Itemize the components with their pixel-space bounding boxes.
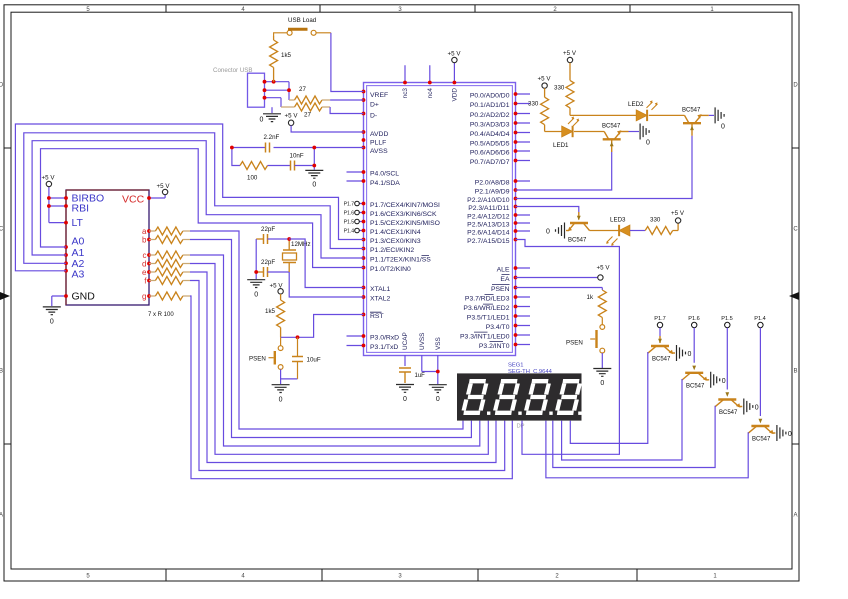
svg-text:XTAL1: XTAL1 xyxy=(370,286,390,293)
svg-text:P3.1/TxD: P3.1/TxD xyxy=(370,344,398,351)
svg-text:+5 V: +5 V xyxy=(42,175,56,182)
svg-text:2.2nF: 2.2nF xyxy=(264,134,280,141)
wire 27a to D+ xyxy=(330,99,363,101)
svg-text:P3.5/T1/LED1: P3.5/T1/LED1 xyxy=(467,314,510,321)
LED1 xyxy=(545,131,562,133)
svg-text:VREF: VREF xyxy=(370,92,388,99)
svg-text:AVDD: AVDD xyxy=(370,131,388,138)
svg-text:VSS: VSS xyxy=(435,337,442,350)
ground USB xyxy=(263,114,281,122)
svg-text:P4.1/SDA: P4.1/SDA xyxy=(370,180,400,187)
wire EA to +5V xyxy=(516,277,598,279)
transistor Q1 BC547 xyxy=(574,131,604,133)
svg-text:BC547: BC547 xyxy=(719,410,738,416)
base wire to P2.2 xyxy=(516,136,693,199)
svg-text:UVSS: UVSS xyxy=(419,333,426,350)
svg-text:P0.2/AD2/D2: P0.2/AD2/D2 xyxy=(470,112,510,119)
svg-text:100: 100 xyxy=(247,175,258,182)
wire 27b to D- xyxy=(330,107,363,114)
svg-text:P0.6/AD6/D6: P0.6/AD6/D6 xyxy=(470,149,510,156)
svg-text:P3.6/WR/LED2: P3.6/WR/LED2 xyxy=(463,305,509,312)
svg-text:P1.1/T2EX/KIN1/SS: P1.1/T2EX/KIN1/SS xyxy=(370,256,431,263)
svg-text:+5 V: +5 V xyxy=(448,51,462,58)
svg-text:b: b xyxy=(142,236,147,245)
left vertical to ground xyxy=(255,239,257,279)
decoder pin dots xyxy=(47,196,151,298)
svg-text:D+: D+ xyxy=(370,101,379,108)
base wire from P2.3 xyxy=(516,207,579,213)
svg-text:D-: D- xyxy=(370,112,377,119)
svg-text:P3.0/RxD: P3.0/RxD xyxy=(370,334,399,341)
resistor 330 R5 xyxy=(544,88,546,131)
ground decoder xyxy=(43,307,61,315)
mcu pin red dots right xyxy=(436,92,517,373)
mcu right pin stubs (unconnected) xyxy=(516,94,531,345)
wire A2 route xyxy=(24,133,364,263)
svg-text:P1.4/CEX1/KIN4: P1.4/CEX1/KIN4 xyxy=(370,229,421,236)
wire P2.7 to display DP pin xyxy=(516,240,620,455)
+5V RST xyxy=(278,289,283,294)
wire seg a xyxy=(190,231,463,429)
wire AVSS row xyxy=(232,147,364,149)
svg-text:0: 0 xyxy=(279,397,283,404)
display digit 4 xyxy=(557,381,580,413)
svg-text:P2.4/A12/D12: P2.4/A12/D12 xyxy=(467,213,510,220)
svg-text:27: 27 xyxy=(299,86,306,93)
svg-text:PSEN: PSEN xyxy=(491,286,510,293)
svg-text:BC547: BC547 xyxy=(682,108,701,114)
svg-text:P1.7: P1.7 xyxy=(344,202,355,208)
svg-text:BC547: BC547 xyxy=(568,238,587,244)
svg-text:LED3: LED3 xyxy=(610,217,626,224)
svg-text:P1.3/CEX0/KIN3: P1.3/CEX0/KIN3 xyxy=(370,238,421,245)
svg-text:PSEN: PSEN xyxy=(566,340,583,347)
svg-text:P1.6: P1.6 xyxy=(688,316,700,322)
svg-text:27: 27 xyxy=(304,112,311,119)
capacitor 22pF C5 top xyxy=(256,238,263,240)
base wires from terminals xyxy=(660,328,760,416)
1uF capacitor on UCAP xyxy=(399,368,411,383)
capacitor 2.2nF xyxy=(266,143,270,153)
svg-text:P2.0/A8/D8: P2.0/A8/D8 xyxy=(475,179,510,186)
svg-text:10nF: 10nF xyxy=(290,153,304,160)
wire node B to XTAL2 xyxy=(289,272,363,297)
rotated ground (opens left) xyxy=(556,223,565,239)
wire A3 route xyxy=(15,124,363,271)
wire seg c xyxy=(190,255,480,446)
svg-text:P0.7/AD7/D7: P0.7/AD7/D7 xyxy=(470,159,510,166)
svg-text:P1.2/ECI/KIN2: P1.2/ECI/KIN2 xyxy=(370,247,414,254)
svg-text:0: 0 xyxy=(646,140,650,147)
ground Q5 emitter xyxy=(711,372,720,388)
decoder labels xyxy=(72,193,105,281)
wire Q4 collector to display xyxy=(570,352,648,443)
svg-text:LED1: LED1 xyxy=(553,142,569,149)
svg-text:UCAP: UCAP xyxy=(402,332,409,350)
svg-text:+5 V: +5 V xyxy=(270,283,284,290)
wire A1 route xyxy=(32,141,363,258)
display decimal points xyxy=(487,412,582,415)
VCC wire to +5V xyxy=(149,195,165,198)
transistor Q2 BC547 xyxy=(649,114,685,116)
emitter to ground (rotated) xyxy=(629,131,640,133)
svg-text:P0.0/AD0/D0: P0.0/AD0/D0 xyxy=(470,92,510,99)
svg-text:330: 330 xyxy=(554,85,565,92)
1k5 pullup resistor xyxy=(273,36,275,82)
svg-text:VDD: VDD xyxy=(451,88,458,102)
svg-text:0: 0 xyxy=(254,292,258,299)
base wire to P2.1 xyxy=(516,152,612,190)
svg-text:P1.0/T2/KIN0: P1.0/T2/KIN0 xyxy=(370,266,411,273)
transistor Q4 BC547 (P1.7) xyxy=(648,336,675,353)
svg-text:P3.2/INT0: P3.2/INT0 xyxy=(479,343,510,350)
svg-text:0: 0 xyxy=(721,124,725,131)
svg-text:SEG1: SEG1 xyxy=(508,363,523,369)
svg-text:+5 V: +5 V xyxy=(671,210,685,217)
svg-text:ALE: ALE xyxy=(497,266,510,273)
wire seg b xyxy=(190,240,471,438)
+5V LED2 xyxy=(567,57,572,62)
7x 100R resistor network a-g xyxy=(149,227,190,300)
pushbutton PSEN (left) xyxy=(280,337,282,345)
ground Q6 emitter xyxy=(744,399,753,415)
left junction vertical xyxy=(232,148,240,166)
GND pin wire xyxy=(52,296,66,306)
svg-text:D: D xyxy=(793,83,798,89)
+5V LED3 xyxy=(675,218,680,223)
MCU IC body (double purple border) xyxy=(364,83,516,356)
svg-text:0: 0 xyxy=(546,229,550,236)
svg-text:1k5: 1k5 xyxy=(281,52,292,59)
svg-text:PLLF: PLLF xyxy=(370,140,386,147)
svg-text:P1.7: P1.7 xyxy=(654,316,666,322)
transistor Q5 BC547 (P1.6) xyxy=(682,373,709,380)
svg-text:1k5: 1k5 xyxy=(265,308,276,315)
svg-text:RST: RST xyxy=(370,313,384,320)
pushbutton PSEN (right) xyxy=(600,325,605,330)
ground PLL filter xyxy=(305,170,323,178)
resistor 1k xyxy=(598,290,606,318)
27 ohm resistor R4 xyxy=(295,103,323,111)
wire seg e xyxy=(190,272,496,463)
svg-text:+5 V: +5 V xyxy=(563,50,577,57)
svg-text:USB Load: USB Load xyxy=(288,17,317,24)
svg-text:VCC: VCC xyxy=(122,194,145,206)
svg-text:nc3: nc3 xyxy=(402,88,409,99)
svg-text:0: 0 xyxy=(403,396,407,403)
svg-text:P0.5/AD5/D5: P0.5/AD5/D5 xyxy=(470,140,510,147)
wire seg g xyxy=(190,296,512,479)
svg-text:B: B xyxy=(0,369,3,375)
svg-text:12MHz: 12MHz xyxy=(291,241,311,248)
decoder left pin wires xyxy=(49,187,66,306)
svg-text:P0.3/AD3/D3: P0.3/AD3/D3 xyxy=(470,121,510,128)
svg-text:330: 330 xyxy=(528,101,539,108)
svg-text:P4.0/SCL: P4.0/SCL xyxy=(370,171,399,178)
svg-text:1uF: 1uF xyxy=(415,373,426,379)
svg-text:P3.3/INT1/LED0: P3.3/INT1/LED0 xyxy=(460,333,510,340)
capacitor 10nF xyxy=(291,161,295,171)
svg-text:0: 0 xyxy=(312,182,316,189)
svg-text:0: 0 xyxy=(722,378,726,385)
resistor 100 xyxy=(240,162,268,170)
frame centre arrows xyxy=(0,292,10,300)
svg-text:P1.6: P1.6 xyxy=(344,211,355,217)
svg-text:22pF: 22pF xyxy=(261,226,275,233)
svg-text:P1.4: P1.4 xyxy=(344,229,355,235)
svg-text:+5 V: +5 V xyxy=(157,183,171,190)
+5V to AVDD xyxy=(288,120,293,125)
svg-text:C: C xyxy=(793,227,798,233)
overlines for RST and SS xyxy=(370,256,429,313)
ground Q7 emitter xyxy=(777,425,786,441)
svg-text:P2.7/A15/D15: P2.7/A15/D15 xyxy=(467,238,510,245)
svg-text:P1.7/CEX4/KIN7/MOSI: P1.7/CEX4/KIN7/MOSI xyxy=(370,202,440,209)
svg-text:GND: GND xyxy=(72,291,96,303)
mcu pin red dots left xyxy=(362,81,457,348)
display SEG1 bezel xyxy=(457,373,582,420)
27 ohm resistor R3 xyxy=(295,96,323,104)
svg-text:0: 0 xyxy=(688,351,692,358)
LED3 (points left) xyxy=(590,230,620,232)
wire A0 route xyxy=(41,149,364,268)
svg-text:A: A xyxy=(0,513,3,519)
svg-text:A: A xyxy=(793,513,797,519)
transistor Q7 BC547 (P1.4) xyxy=(748,426,775,433)
mcu left pin stubs xyxy=(347,172,364,346)
P1.7-P1.4 terminal circles at mcu left xyxy=(355,201,360,233)
svg-text:B: B xyxy=(793,369,797,375)
wire switch to VREF xyxy=(331,33,364,92)
svg-text:+5 V: +5 V xyxy=(538,76,552,83)
svg-text:A0: A0 xyxy=(72,236,85,248)
svg-text:22pF: 22pF xyxy=(261,259,275,266)
svg-text:Conector USB: Conector USB xyxy=(213,67,253,74)
svg-text:LT: LT xyxy=(72,217,84,229)
LED2 xyxy=(570,114,636,116)
mcu pin labels left column xyxy=(370,92,440,351)
svg-text:0: 0 xyxy=(755,405,759,412)
svg-text:+5 V: +5 V xyxy=(597,265,611,272)
svg-text:BC547: BC547 xyxy=(686,383,705,389)
svg-text:LED2: LED2 xyxy=(628,101,644,108)
svg-text:0: 0 xyxy=(260,117,264,124)
crystal X1 12MHz xyxy=(288,239,290,272)
transistor Q6 BC547 (P1.5) xyxy=(715,400,742,407)
wire Q5 collector to display xyxy=(562,379,682,460)
svg-text:P0.1/AD1/D1: P0.1/AD1/D1 xyxy=(470,102,510,109)
svg-text:g: g xyxy=(142,292,146,301)
A0-A3 nest routes MCU P1.3-P1.0 to decoder xyxy=(15,124,363,271)
svg-text:XTAL2: XTAL2 xyxy=(370,295,390,302)
resistor 330 R6 xyxy=(569,63,571,116)
svg-text:P2.1/A9/D9: P2.1/A9/D9 xyxy=(475,188,510,195)
display digit 1 xyxy=(463,381,486,413)
svg-text:nc4: nc4 xyxy=(427,88,434,99)
svg-text:P2.5/A13/D13: P2.5/A13/D13 xyxy=(467,221,510,228)
svg-text:AVSS: AVSS xyxy=(370,148,388,155)
ground UCAP xyxy=(396,385,414,393)
junction dots USB xyxy=(263,80,291,100)
1k5 resistor R2 xyxy=(280,294,282,337)
+5V on VDD xyxy=(452,57,457,62)
svg-text:BC547: BC547 xyxy=(652,357,671,363)
overlines EA PSEN RD WR INT1 INT0 xyxy=(474,275,510,342)
wire Q7 collector to display xyxy=(546,421,748,478)
svg-text:RBI: RBI xyxy=(72,203,90,215)
wire RST node xyxy=(281,315,364,338)
rotated bottom pin names xyxy=(402,332,442,350)
ground VSS xyxy=(429,385,447,393)
+5V decoder left xyxy=(46,181,51,186)
svg-text:0: 0 xyxy=(788,431,792,438)
+5V LED1 xyxy=(542,83,547,88)
mcu bottom pins UCAP UVSS VSS xyxy=(405,355,438,384)
svg-text:+5 V: +5 V xyxy=(285,113,299,120)
svg-text:BC547: BC547 xyxy=(602,124,621,130)
svg-text:P0.4/AD4/D4: P0.4/AD4/D4 xyxy=(470,131,510,138)
node P1.7 terminal xyxy=(657,322,763,327)
svg-text:BC547: BC547 xyxy=(752,437,771,443)
mcu top pins nc3 nc4 VDD xyxy=(405,63,454,83)
svg-text:P2.3/A11/D11: P2.3/A11/D11 xyxy=(468,205,510,212)
connector J1 body xyxy=(248,73,265,107)
svg-text:P3.7/RD/LED3: P3.7/RD/LED3 xyxy=(465,295,510,302)
resistor 330 R7 xyxy=(630,230,645,232)
svg-text:P1.5: P1.5 xyxy=(344,220,355,226)
svg-text:P1.6/CEX3/KIN6/SCK: P1.6/CEX3/KIN6/SCK xyxy=(370,211,437,218)
svg-text:DP: DP xyxy=(517,424,525,430)
svg-text:A3: A3 xyxy=(72,269,85,281)
rotated top pin names xyxy=(402,88,458,102)
wire node A to XTAL1 xyxy=(289,239,363,288)
svg-text:0: 0 xyxy=(436,396,440,403)
resistor output routes to display segment pins xyxy=(190,231,512,479)
svg-text:PSEN: PSEN xyxy=(249,356,266,363)
svg-text:P3.4/T0: P3.4/T0 xyxy=(486,324,510,331)
display digit 3 xyxy=(526,381,549,413)
ground Q4 emitter xyxy=(677,345,686,361)
wire Q6 collector to display xyxy=(553,406,715,468)
svg-text:330: 330 xyxy=(650,217,661,224)
svg-text:P2.6/A14/D14: P2.6/A14/D14 xyxy=(467,229,510,236)
svg-text:P1.5: P1.5 xyxy=(721,316,733,322)
svg-text:P2.2/A10/D10: P2.2/A10/D10 xyxy=(467,197,510,204)
+5V tie to BIRBO RBI LT xyxy=(49,187,66,223)
connector pin wires xyxy=(265,82,290,113)
capacitor 22pF C6 bottom xyxy=(256,271,263,273)
svg-text:P1.4: P1.4 xyxy=(754,316,766,322)
svg-text:EA: EA xyxy=(500,276,510,283)
svg-text:P1.5/CEX2/KIN5/MISO: P1.5/CEX2/KIN5/MISO xyxy=(370,220,440,227)
svg-text:1k: 1k xyxy=(587,294,594,301)
display digit 2 xyxy=(495,381,518,413)
ground RST xyxy=(272,385,290,393)
mcu pin labels right column xyxy=(460,92,510,350)
wire seg f xyxy=(190,281,505,471)
wire seg d xyxy=(190,264,488,455)
svg-text:7 x R 100: 7 x R 100 xyxy=(148,312,174,318)
capacitor 10uF xyxy=(297,337,299,379)
svg-text:10uF: 10uF xyxy=(307,357,321,364)
svg-text:0: 0 xyxy=(50,319,54,326)
svg-text:0: 0 xyxy=(600,380,604,387)
ground crystal xyxy=(247,280,265,288)
